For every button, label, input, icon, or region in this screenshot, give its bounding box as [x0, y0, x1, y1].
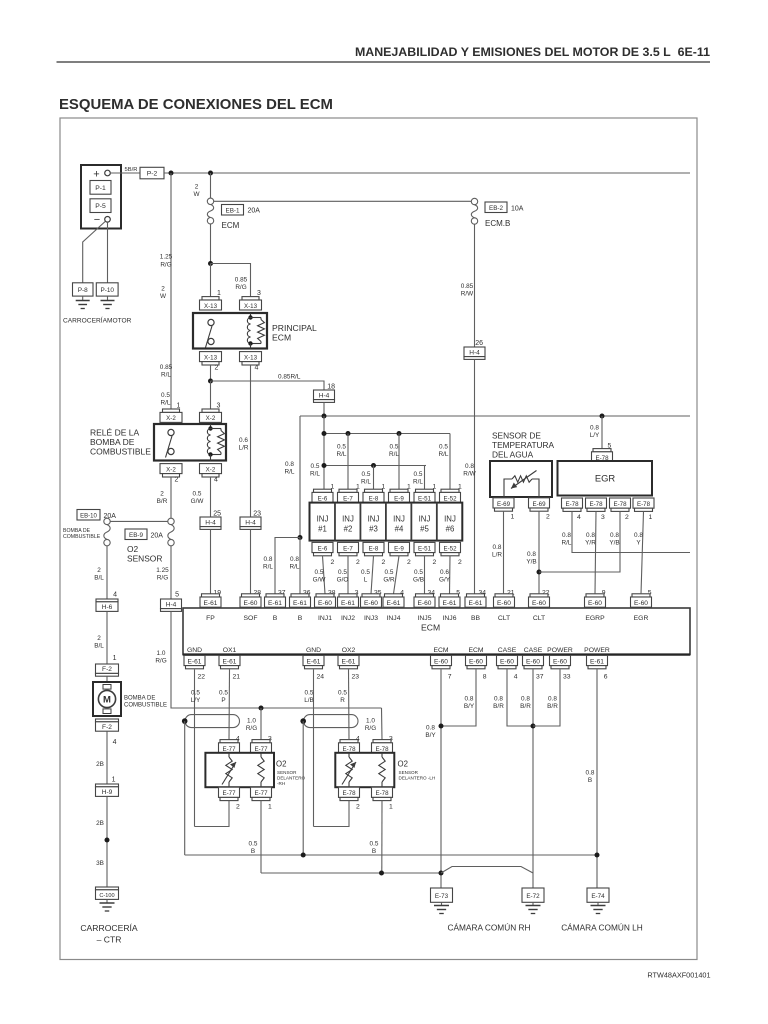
svg-text:R/G: R/G [246, 725, 257, 732]
svg-text:22: 22 [197, 673, 205, 680]
wire H-4 18 to injector supply bus [323, 402, 325, 416]
connector E-77 pin 1 [251, 787, 272, 797]
svg-text:0.5: 0.5 [439, 444, 448, 451]
svg-text:1.25: 1.25 [156, 567, 169, 574]
svg-text:20A: 20A [248, 208, 261, 215]
svg-text:0.8: 0.8 [465, 463, 474, 470]
svg-text:DEL AGUA: DEL AGUA [492, 450, 534, 460]
connector E-77 pin 2 [219, 787, 240, 797]
svg-text:R/G: R/G [155, 658, 166, 665]
svg-text:2: 2 [97, 567, 101, 574]
wire 0.5 G/W relay pin4 to H-4 25 [210, 477, 212, 517]
svg-text:ECM: ECM [222, 221, 240, 230]
svg-text:E-60: E-60 [532, 600, 546, 607]
svg-text:INJ5: INJ5 [418, 615, 432, 622]
wire 0.5 G/W H-4 25 to ECM FP pin 19 [210, 529, 212, 593]
svg-text:G/Y: G/Y [439, 577, 451, 584]
svg-text:B/Y: B/Y [425, 732, 436, 739]
svg-text:R/L: R/L [263, 564, 273, 571]
svg-text:−: − [94, 214, 100, 226]
svg-text:GND: GND [306, 647, 321, 654]
svg-text:1.0: 1.0 [157, 650, 166, 657]
ground camara comun RH (E-73) [441, 902, 443, 905]
node LH drain [301, 853, 306, 858]
wire 2 W down-left column to X-2 pin 1 [170, 173, 172, 409]
svg-text:7: 7 [448, 673, 452, 680]
wire 0.5 B O2 RH heater ground [260, 801, 262, 873]
svg-text:SENSOR: SENSOR [277, 770, 297, 775]
svg-text:26: 26 [475, 340, 483, 347]
wire 1.0 R/G H-4 5 to O2 heater bus [171, 611, 382, 708]
svg-text:E-69: E-69 [532, 501, 546, 508]
svg-text:E-61: E-61 [341, 600, 355, 607]
svg-text:F-2: F-2 [102, 666, 112, 673]
svg-text:E-8: E-8 [369, 545, 379, 552]
wire drop to E-51 pin 1 [424, 466, 426, 493]
svg-text:0.5: 0.5 [193, 491, 202, 498]
svg-text:Y/B: Y/B [609, 540, 619, 547]
wire to X-13 pin 1 [210, 264, 212, 297]
svg-text:1: 1 [217, 290, 221, 297]
svg-text:4: 4 [255, 364, 259, 371]
wire drop to E-8 pin 1 [373, 466, 375, 493]
svg-text:E-72: E-72 [526, 893, 540, 900]
svg-text:E-60: E-60 [526, 658, 540, 665]
svg-text:2: 2 [160, 491, 164, 498]
svg-text:O2: O2 [127, 544, 139, 554]
svg-text:TEMPERATURA: TEMPERATURA [492, 440, 555, 450]
svg-text:X-2: X-2 [166, 466, 176, 473]
svg-text:INJ: INJ [342, 515, 354, 524]
svg-text:Y: Y [636, 540, 641, 547]
svg-text:R/G: R/G [235, 284, 246, 291]
wire ECM pin 7 to E-73 ground [440, 669, 442, 888]
svg-text:L/R: L/R [239, 445, 249, 452]
svg-text:0.6: 0.6 [239, 437, 248, 444]
svg-text:L/Y: L/Y [191, 697, 201, 704]
svg-text:4: 4 [214, 476, 218, 483]
svg-text:E-61: E-61 [188, 658, 202, 665]
svg-text:0.5: 0.5 [219, 690, 228, 697]
svg-text:#2: #2 [344, 525, 353, 534]
connector P-2 [140, 167, 164, 179]
svg-text:G/B: G/B [413, 577, 424, 584]
svg-text:SENSOR: SENSOR [399, 770, 419, 775]
shield drain LH [300, 718, 306, 724]
wire 0.6 L/R X-13 pin4 to H-4 pin 23 [250, 365, 252, 517]
svg-text:20A: 20A [151, 532, 164, 539]
svg-text:0.85R/L: 0.85R/L [278, 374, 301, 381]
wire 0.85R/L to H-4 pin 18 [211, 381, 325, 390]
wire EB-1 to node 1.25 R/G [210, 224, 212, 264]
svg-text:0.5: 0.5 [362, 471, 371, 478]
svg-text:E-9: E-9 [394, 545, 404, 552]
svg-text:E-61: E-61 [342, 658, 356, 665]
svg-text:0.85: 0.85 [235, 277, 248, 284]
svg-text:EGRP: EGRP [585, 615, 605, 622]
node B/Y join [439, 724, 444, 729]
svg-text:2: 2 [215, 364, 219, 371]
injector connector E-9 pin 2 [389, 542, 410, 552]
svg-text:R/G: R/G [365, 725, 376, 732]
svg-text:RTW48AXF001401: RTW48AXF001401 [647, 971, 710, 980]
svg-text:B/L: B/L [94, 575, 104, 582]
svg-text:E-60: E-60 [434, 658, 448, 665]
svg-text:2: 2 [236, 804, 240, 811]
svg-text:1: 1 [649, 514, 653, 521]
svg-text:INJ3: INJ3 [364, 615, 378, 622]
svg-text:INJ: INJ [444, 515, 456, 524]
svg-text:23: 23 [351, 673, 359, 680]
svg-text:H-9: H-9 [102, 789, 113, 796]
svg-text:CÁMARA COMÚN LH: CÁMARA COMÚN LH [561, 923, 643, 933]
svg-text:G/W: G/W [313, 577, 327, 584]
node at P-2 output [169, 171, 174, 176]
svg-text:E-60: E-60 [634, 600, 648, 607]
svg-text:R/L: R/L [413, 479, 423, 486]
svg-text:2: 2 [195, 184, 199, 191]
svg-text:0.8: 0.8 [548, 696, 557, 703]
node B/R join [531, 724, 536, 729]
svg-text:E-6: E-6 [318, 495, 328, 502]
svg-text:E-74: E-74 [591, 893, 605, 900]
svg-text:EB-2: EB-2 [489, 205, 503, 212]
svg-text:E-6: E-6 [318, 545, 328, 552]
O2 sensor front LH [335, 753, 394, 787]
svg-text:C-100: C-100 [99, 893, 114, 899]
svg-text:E-78: E-78 [375, 746, 389, 753]
wire 0.8 B/Y ECM pin 8 join [441, 669, 476, 726]
wire 1.0 R/G to E-77 pin 3 [260, 708, 262, 740]
wire fuse tops EB-1 to EB-2 [214, 200, 472, 202]
battery B+ terminal box [81, 165, 121, 229]
svg-text:ESQUEMA DE CONEXIONES DEL ECM: ESQUEMA DE CONEXIONES DEL ECM [59, 97, 333, 113]
svg-text:R/L: R/L [337, 451, 347, 458]
svg-text:E-9: E-9 [394, 495, 404, 502]
svg-text:E-78: E-78 [375, 790, 389, 797]
injector connector E-6 pin 2 [312, 542, 333, 552]
svg-text:E-61: E-61 [387, 600, 401, 607]
svg-text:Y/B: Y/B [526, 559, 536, 566]
connector E-78 pin 2 [610, 498, 631, 508]
svg-text:E-7: E-7 [343, 495, 353, 502]
svg-text:2B: 2B [96, 761, 104, 768]
svg-text:E-78: E-78 [342, 746, 356, 753]
svg-text:E-61: E-61 [223, 658, 237, 665]
svg-text:0.5: 0.5 [338, 690, 347, 697]
svg-text:ECM: ECM [421, 623, 440, 633]
connector E-74 [587, 888, 609, 902]
svg-text:2: 2 [458, 559, 462, 566]
wire 1.25 R/G EB-9 to H-4 5 [170, 546, 172, 599]
wire 2 B/R relay to fuses [170, 477, 172, 518]
connector E-72 [522, 888, 544, 902]
svg-text:X-2: X-2 [206, 415, 216, 422]
svg-text:0.5: 0.5 [191, 690, 200, 697]
svg-text:POWER: POWER [584, 647, 610, 654]
svg-text:3: 3 [601, 514, 605, 521]
svg-text:P: P [221, 697, 225, 704]
svg-text:P-8: P-8 [78, 287, 88, 294]
svg-text:FP: FP [206, 615, 215, 622]
svg-text:0.8: 0.8 [634, 532, 643, 539]
svg-text:RELÉ DE LA: RELÉ DE LA [90, 428, 139, 438]
wire 2B F-2 to H-9 [106, 731, 108, 784]
svg-text:0.8: 0.8 [264, 556, 273, 563]
svg-text:0.8: 0.8 [285, 461, 294, 468]
svg-text:E-60: E-60 [364, 600, 378, 607]
svg-text:X-13: X-13 [204, 354, 218, 361]
svg-text:INJ1: INJ1 [318, 615, 332, 622]
svg-text:DELANTERO -LH: DELANTERO -LH [399, 776, 436, 781]
svg-text:B: B [372, 848, 376, 855]
wire battery+ to P-2, 5B/R [110, 172, 140, 174]
svg-text:E-61: E-61 [590, 658, 604, 665]
node O2 RH heater feed [259, 706, 264, 711]
svg-text:2: 2 [161, 286, 165, 293]
wire battery negative to P-10 [107, 222, 109, 283]
svg-text:0.85: 0.85 [461, 283, 474, 290]
svg-text:ECM: ECM [433, 647, 448, 654]
wire 0.8 Y/B EGR pin 2 to CLT low node [539, 511, 620, 572]
svg-text:CARROCERÍA: CARROCERÍA [80, 923, 138, 933]
node EB-1 tap [208, 171, 213, 176]
svg-text:0.8: 0.8 [493, 544, 502, 551]
svg-text:COMBUSTIBLE: COMBUSTIBLE [63, 534, 101, 540]
svg-text:E-78: E-78 [565, 501, 579, 508]
svg-text:H-4: H-4 [245, 519, 256, 526]
node R/G split [208, 261, 213, 266]
svg-text:#6: #6 [446, 525, 455, 534]
svg-text:6: 6 [604, 673, 608, 680]
connector F-2 pin 4 [96, 719, 119, 722]
svg-text:3: 3 [257, 290, 261, 297]
injector bus row 3 [324, 465, 426, 467]
connector E-69 pin 1 [493, 498, 514, 508]
svg-text:0.5: 0.5 [161, 392, 170, 399]
svg-text:L/R: L/R [492, 552, 502, 559]
svg-text:E-51: E-51 [418, 495, 432, 502]
svg-text:E-60: E-60 [244, 600, 258, 607]
svg-text:E-77: E-77 [254, 746, 268, 753]
sensor de temperatura del agua (thermistor) [490, 461, 552, 497]
wire injector 5 output to ECM INJ5 [424, 556, 426, 594]
svg-text:0.5: 0.5 [414, 569, 423, 576]
svg-text:B: B [588, 777, 592, 784]
svg-text:4: 4 [113, 739, 117, 746]
svg-text:GND: GND [187, 647, 202, 654]
wire 0.5 R ECM OX2 23 to O2 LH pin 4 [348, 669, 351, 739]
node EGR feed [600, 414, 605, 419]
svg-text:8: 8 [483, 673, 487, 680]
svg-text:1.25: 1.25 [160, 254, 173, 261]
svg-text:0.5: 0.5 [249, 841, 258, 848]
svg-text:0.8: 0.8 [494, 696, 503, 703]
wire 0.8 R/L to ECM B pin 36 [299, 538, 301, 594]
svg-text:0.85: 0.85 [160, 364, 173, 371]
svg-text:2: 2 [625, 514, 629, 521]
wire P-2 to right bus [164, 172, 690, 174]
connector E-78 pin 3 [586, 498, 607, 508]
fuse EB-1 20A ECM [207, 198, 213, 204]
svg-text:E-60: E-60 [588, 600, 602, 607]
wire injector 3 output to ECM INJ3 [371, 556, 374, 594]
svg-text:CARROCERÍAMOTOR: CARROCERÍAMOTOR [63, 316, 132, 325]
wire 1.0 R/G to E-78 pin 3 (LH) [381, 708, 384, 740]
svg-text:EB-9: EB-9 [129, 532, 143, 539]
injector bank INJ #1-#6 [310, 503, 463, 541]
svg-text:X-2: X-2 [206, 466, 216, 473]
svg-text:INJ: INJ [368, 515, 380, 524]
svg-text:G/W: G/W [191, 498, 205, 505]
O2 sensor front RH [205, 753, 274, 787]
svg-text:R/W: R/W [463, 471, 476, 478]
node LH heater ground [379, 871, 384, 876]
svg-text:0.8: 0.8 [290, 556, 299, 563]
svg-text:B: B [251, 848, 255, 855]
svg-text:R/L: R/L [310, 471, 320, 478]
node E-73 tie [439, 871, 444, 876]
connector X-2 pin 4 [200, 464, 222, 474]
wire 0.5 L/Y ECM GND 22 to O2 RH [194, 669, 196, 826]
wire 2B / 3B H-9 to C-100 [106, 797, 108, 887]
svg-text:R: R [340, 697, 345, 704]
svg-text:EB-10: EB-10 [80, 513, 97, 519]
wire 0.8 R/W from H-4 26 to ECM BB pin 34 [474, 359, 476, 593]
svg-text:R/W: R/W [461, 291, 474, 298]
node 0.85 R/L [208, 379, 213, 384]
svg-text:BOMBA DE: BOMBA DE [90, 437, 135, 447]
svg-text:4: 4 [577, 514, 581, 521]
svg-text:E-61: E-61 [204, 600, 218, 607]
svg-text:0.8: 0.8 [590, 425, 599, 432]
svg-text:2: 2 [175, 476, 179, 483]
svg-text:P-2: P-2 [147, 171, 158, 178]
connector X-13 pin 2 [200, 352, 222, 362]
svg-text:33: 33 [563, 673, 571, 680]
connector E-73 [431, 888, 453, 902]
ground camara comun LH (E-74) [597, 902, 599, 905]
svg-text:X-13: X-13 [204, 303, 218, 310]
shield ground bus [185, 854, 597, 856]
node splice on ground wire [105, 838, 110, 843]
svg-text:E-60: E-60 [497, 600, 511, 607]
connector C-100 [96, 887, 119, 890]
node INJ4 feed [397, 431, 402, 436]
wire O2 RH pin 2 return [195, 801, 230, 827]
heater ground bus [261, 872, 441, 874]
wire 2 B/L H-6 to F-2 [106, 611, 108, 664]
wire tie to E-72 [441, 867, 533, 874]
svg-text:INJ2: INJ2 [341, 615, 355, 622]
svg-text:2: 2 [97, 635, 101, 642]
svg-text:EGR: EGR [595, 473, 616, 484]
wire 0.8 Y EGR pin 1 to ECM EGR 5 [641, 511, 644, 593]
svg-text:R/L: R/L [361, 479, 371, 486]
svg-text:BOMBA DE: BOMBA DE [124, 695, 155, 701]
svg-text:SOF: SOF [244, 615, 258, 622]
svg-text:B/R: B/R [493, 703, 504, 710]
svg-text:2: 2 [356, 559, 360, 566]
svg-text:0.5: 0.5 [305, 690, 314, 697]
svg-text:E-77: E-77 [222, 790, 236, 797]
svg-text:0.8: 0.8 [465, 696, 474, 703]
wire drop to E-7 pin 1 [347, 434, 349, 493]
svg-text:OX2: OX2 [342, 647, 356, 654]
connector E-78 pin 2 [339, 787, 360, 797]
wire injector 1 output to ECM INJ1 [323, 556, 326, 594]
svg-text:0.8: 0.8 [586, 532, 595, 539]
svg-text:0.5: 0.5 [390, 444, 399, 451]
wire 0.5 R/L down to X-2 pin 3 [210, 381, 212, 409]
svg-text:1: 1 [511, 514, 515, 521]
svg-text:#4: #4 [395, 525, 404, 534]
connector X-13 pin 4 [240, 352, 262, 362]
svg-text:B/L: B/L [94, 643, 104, 650]
svg-text:MANEJABILIDAD Y EMISIONES DEL: MANEJABILIDAD Y EMISIONES DEL MOTOR DE 3… [355, 45, 710, 59]
svg-text:CÁMARA COMÚN RH: CÁMARA COMÚN RH [448, 923, 531, 933]
wire 0.8 B/R ECM pin 33 join [533, 669, 560, 726]
wire tap to fuse EB-1, 2 W [210, 173, 212, 198]
svg-text:E-7: E-7 [343, 545, 353, 552]
fusible link P-5 [90, 199, 111, 213]
svg-text:E-60: E-60 [469, 658, 483, 665]
svg-text:-RH: -RH [277, 781, 285, 786]
svg-text:H-4: H-4 [319, 392, 330, 399]
relay RELE DE LA BOMBA DE COMBUSTIBLE [154, 424, 226, 461]
wire injector supply bus 0.85 R/L [300, 415, 690, 417]
svg-text:E-60: E-60 [553, 658, 567, 665]
svg-text:POWER: POWER [547, 647, 573, 654]
svg-text:OX1: OX1 [223, 647, 237, 654]
ground CARROCERIA CTR [106, 899, 108, 903]
svg-text:B/Y: B/Y [464, 703, 475, 710]
svg-text:E-61: E-61 [469, 600, 483, 607]
svg-text:24: 24 [316, 673, 324, 680]
svg-text:2: 2 [407, 559, 411, 566]
svg-text:1: 1 [389, 804, 393, 811]
wire 0.85 R/W from EB-2 to H-4 pin 26 [474, 224, 476, 347]
svg-text:0.5: 0.5 [385, 569, 394, 576]
svg-text:E-60: E-60 [318, 600, 332, 607]
svg-text:M: M [103, 695, 111, 706]
wire injector 2 output to ECM INJ2 [347, 556, 349, 594]
svg-text:E-61: E-61 [268, 600, 282, 607]
svg-text:+: + [93, 169, 99, 181]
svg-text:E-8: E-8 [369, 495, 379, 502]
svg-text:R/G: R/G [157, 575, 168, 582]
svg-text:H-4: H-4 [205, 519, 216, 526]
wire 2 B/L EB-10 to H-6 [106, 546, 108, 599]
svg-text:2: 2 [331, 559, 335, 566]
svg-text:O2: O2 [398, 760, 408, 769]
wire O2 LH pin 2 return [314, 801, 350, 827]
svg-text:2B: 2B [96, 820, 104, 827]
svg-text:23: 23 [253, 510, 261, 517]
wire 0.8 R/L EGR pin 4 off-page [572, 511, 690, 552]
svg-text:0.5: 0.5 [315, 569, 324, 576]
wire 0.8 R/L down to ECM B pins [299, 416, 301, 538]
svg-text:R/L: R/L [562, 540, 572, 547]
svg-text:B/R: B/R [157, 498, 168, 505]
ECM control module box [183, 608, 690, 655]
svg-text:CASE: CASE [498, 647, 517, 654]
svg-text:E-78: E-78 [342, 790, 356, 797]
svg-text:B: B [273, 615, 278, 622]
wire 0.8 R/L to ECM B pin 37 [275, 538, 300, 594]
wire 0.8 B/R ECM pin 4 join [507, 669, 533, 726]
svg-text:E-78: E-78 [613, 501, 627, 508]
